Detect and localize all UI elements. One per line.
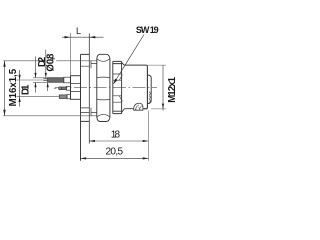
groove between flange and nut — [91, 63, 97, 112]
L dimension line — [62, 36, 104, 38]
D1 dimension vertical — [19, 70, 21, 107]
center line — [55, 87, 157, 89]
L extension left — [70, 33, 72, 77]
arrowheads — [3, 36, 164, 160]
M16 thread extension line bottom — [3, 115, 97, 117]
M12 cylinder — [124, 65, 147, 109]
end face contact tip — [147, 67, 151, 108]
thread relief verticals — [90, 61, 92, 116]
svg-text:M16x1,5: M16x1,5 — [8, 68, 19, 106]
hex nut SW19 — [97, 54, 110, 121]
SW19 leader — [113, 35, 144, 85]
svg-text:SW 19: SW 19 — [136, 25, 159, 35]
M16 arrows — [3, 61, 5, 67]
D1 arrows — [19, 75, 21, 80]
flange right edge / L and 18 extension — [88, 34, 90, 144]
M16 dimension vertical — [4, 61, 6, 116]
18 arrows — [89, 140, 95, 142]
L arrows outside — [65, 36, 71, 38]
flange top and bottom edges — [81, 54, 90, 121]
M16 thread extension line top (gap under labels) — [3, 60, 97, 62]
flange inner lines — [81, 66, 90, 112]
svg-text:Ø 0,8: Ø 0,8 — [46, 53, 57, 72]
M12 arrows — [162, 104, 164, 109]
washer chamfer to cylinder — [122, 63, 125, 113]
pin dim arrows verticals — [36, 50, 48, 93]
washer hex facet lines — [113, 74, 121, 102]
pin1 edge extension lines — [33, 78, 48, 83]
svg-text:L: L — [76, 26, 81, 36]
svg-text:M12x1: M12x1 — [167, 76, 178, 102]
nut hex flat lines — [97, 77, 110, 100]
SW19 leader arrow — [113, 79, 117, 84]
svg-text:20,5: 20,5 — [106, 147, 124, 158]
svg-text:18: 18 — [111, 130, 121, 141]
svg-text:D1: D1 — [20, 84, 31, 95]
pin 3 (bottom) — [59, 95, 67, 99]
pin 1 (top, long) — [44, 79, 48, 81]
D1 extension lines at pin centres — [17, 80, 60, 97]
pin arrows — [34, 73, 36, 78]
pin 2 (middle) — [54, 87, 56, 89]
pin bushings block — [71, 76, 81, 100]
20,5 arrows — [81, 157, 87, 159]
M12 dimension — [147, 65, 166, 109]
18 dimension — [147, 111, 149, 161]
nut chamfer arcs — [97, 59, 110, 117]
washer — [113, 61, 122, 113]
seal o-ring bottom right — [134, 103, 143, 110]
washer facet chamfer slants — [119, 75, 122, 102]
flange left edge / 20,5 extension — [80, 54, 82, 160]
20,5 dimension — [81, 157, 149, 159]
